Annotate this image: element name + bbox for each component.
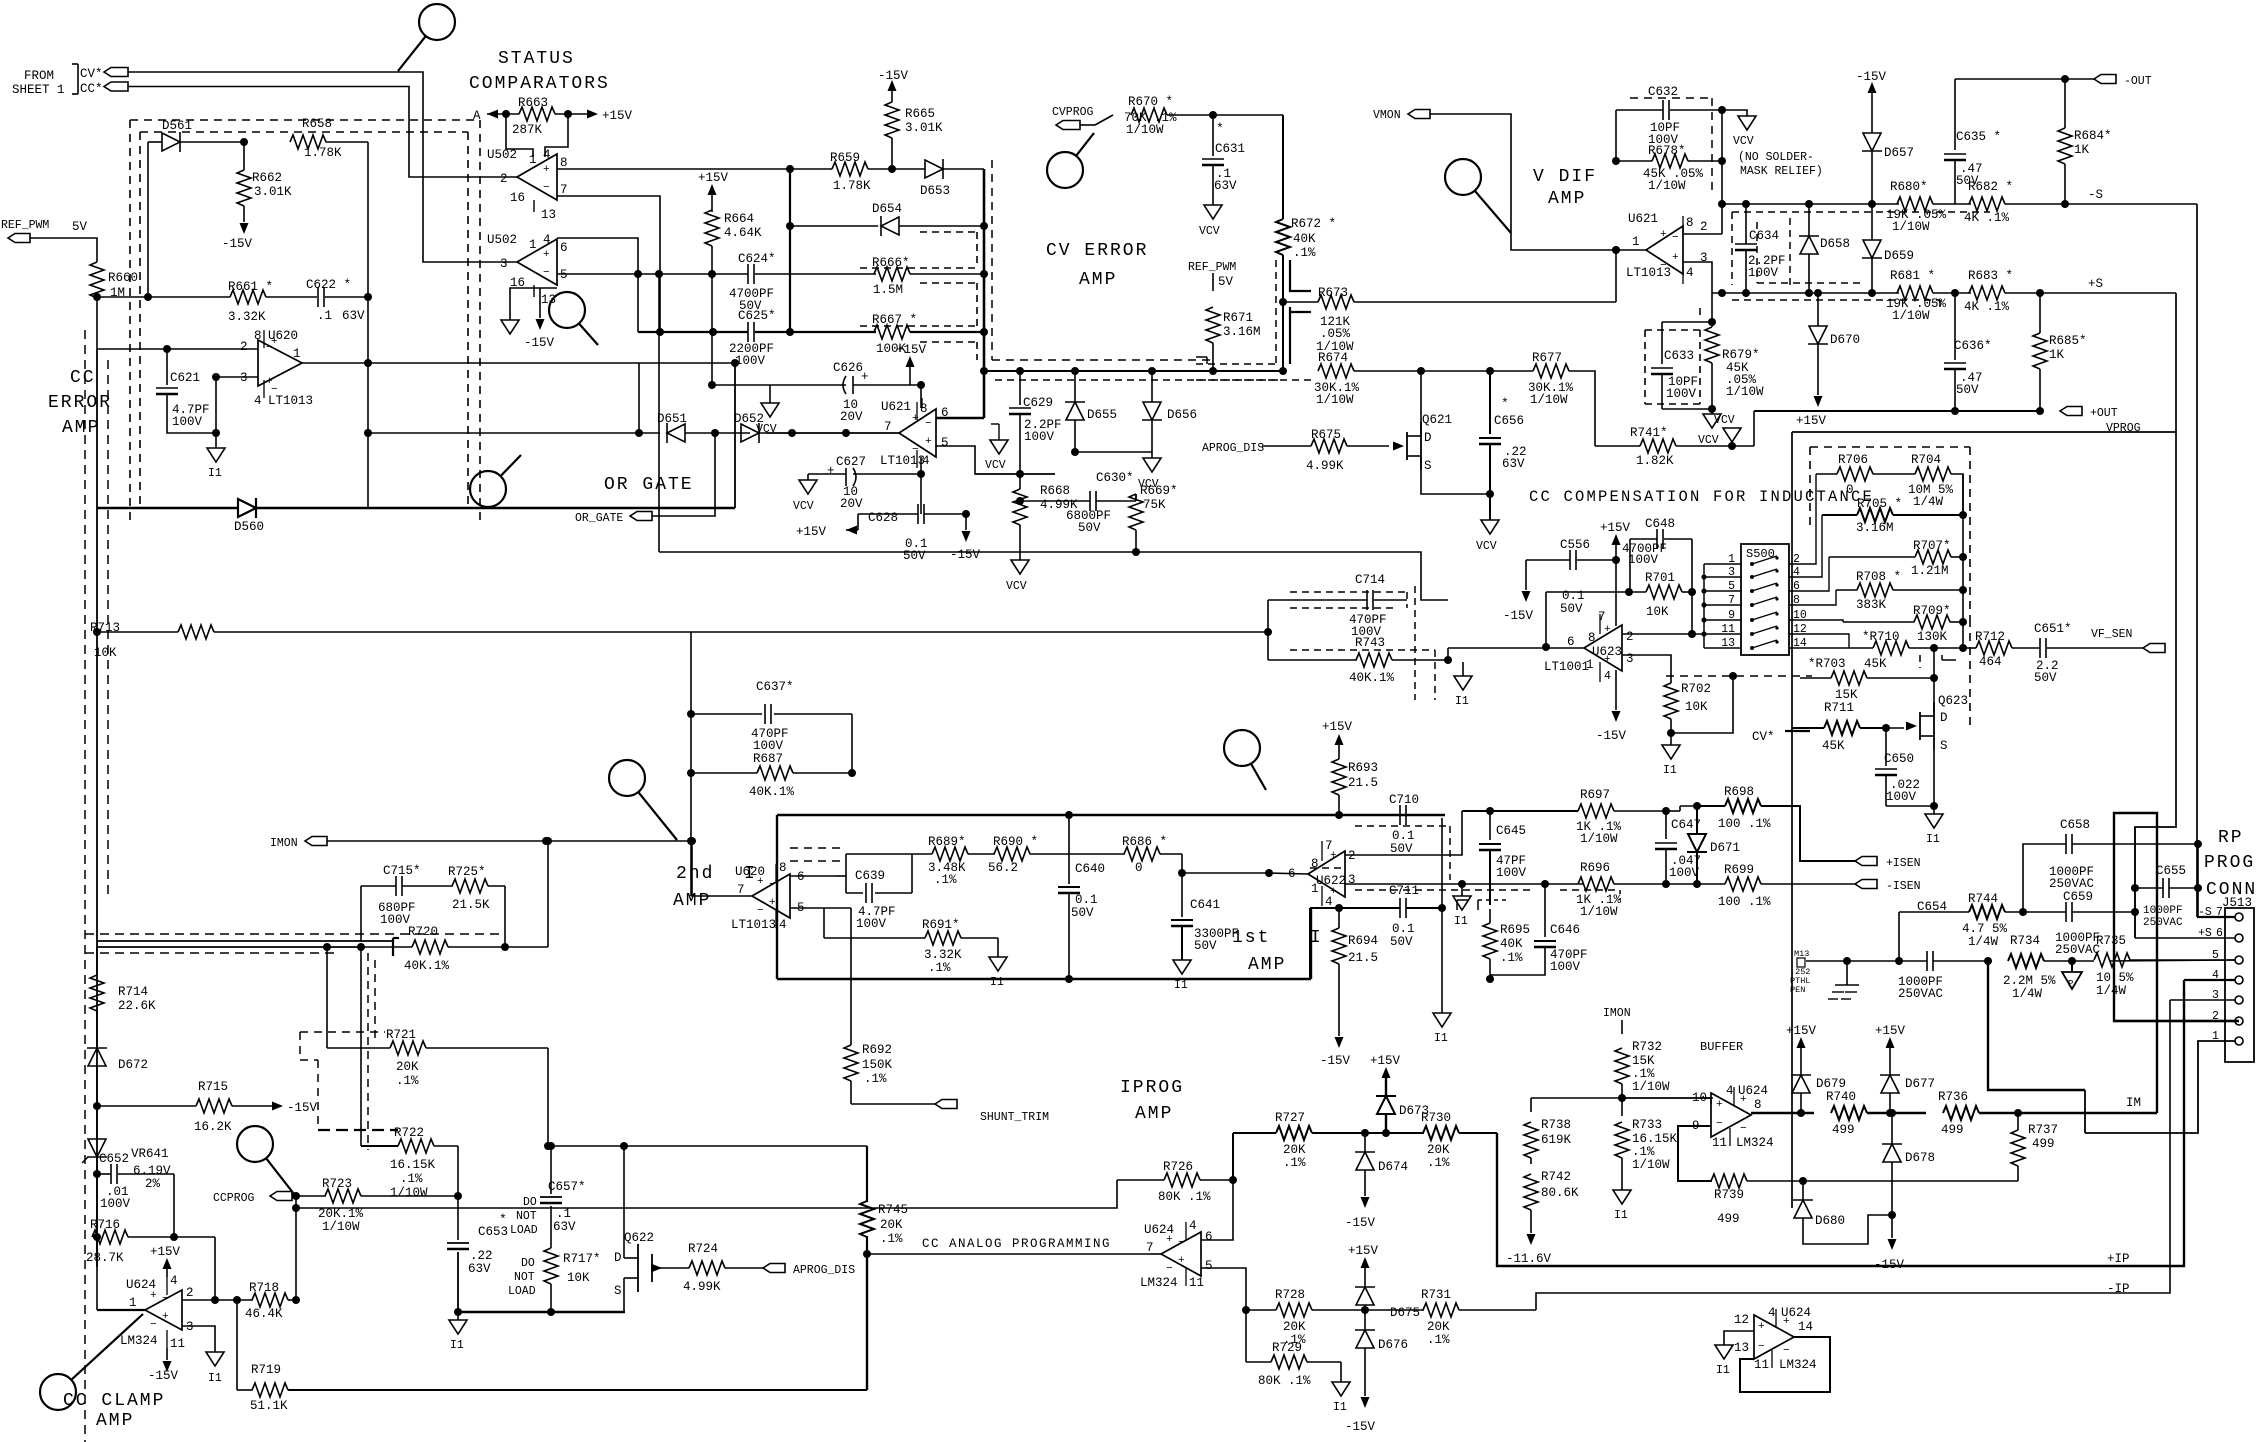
svg-text:C630*: C630*: [1096, 471, 1134, 485]
svg-text:100 .1%: 100 .1%: [1718, 817, 1771, 831]
svg-text:11: 11: [1721, 623, 1735, 636]
wire C648 loop: [1630, 538, 1657, 540]
svg-text:VCV: VCV: [1199, 225, 1220, 238]
svg-text:C658: C658: [2060, 818, 2090, 832]
wire VCV rail y371: [984, 370, 1283, 372]
wire -IP long: [1535, 1309, 1537, 1311]
wire REF_PWM to R660: [30, 238, 97, 262]
ground I1 under Q623: [1933, 806, 1935, 814]
svg-text:.1%: .1%: [1632, 1145, 1655, 1159]
svg-text:R709*: R709*: [1913, 604, 1951, 618]
opamp U624c BUFFER: [1711, 1093, 1751, 1137]
wire x659 down: [658, 274, 660, 552]
balloon callout 3: [470, 471, 506, 507]
svg-text:AMP: AMP: [96, 1411, 134, 1431]
svg-text:LT1013: LT1013: [268, 394, 313, 408]
svg-text:C634: C634: [1749, 229, 1779, 243]
wire U624a pin1 output: [97, 1309, 145, 1311]
svg-text:7: 7: [560, 183, 568, 197]
wire C628 +15V: [857, 514, 859, 530]
power -15V D676: [1361, 1397, 1370, 1408]
svg-text:4: 4: [1768, 1306, 1776, 1320]
svg-text:*: *: [1501, 396, 1509, 411]
svg-text:130K: 130K: [1917, 630, 1948, 644]
svg-text:+: +: [1716, 1099, 1723, 1111]
svg-text:13: 13: [541, 208, 556, 222]
wire VPROG border: [1792, 431, 2176, 433]
svg-text:R694: R694: [1348, 934, 1378, 948]
wire heavy pin1 net: [1988, 961, 2085, 1090]
svg-text:+: +: [1604, 624, 1611, 636]
power -15V arrow: [240, 223, 249, 234]
wire CC ANALOG PROGRAMMING: [867, 1253, 1150, 1255]
svg-text:13: 13: [1734, 1341, 1749, 1355]
svg-text:R720: R720: [408, 925, 438, 939]
power +15V under D670: [1814, 396, 1823, 407]
svg-text:I1: I1: [1434, 1032, 1448, 1045]
svg-text:63V: 63V: [468, 1262, 491, 1276]
svg-text:D: D: [1940, 711, 1948, 725]
wire +15V down to U623: [1615, 560, 1617, 626]
svg-text:SHEET 1: SHEET 1: [12, 83, 65, 97]
svg-text:R685*: R685*: [2049, 334, 2087, 348]
svg-text:IMON: IMON: [1603, 1007, 1631, 1020]
svg-text:1: 1: [1728, 553, 1735, 566]
ground I1 near C710 region: [1462, 662, 1464, 676]
svg-text:1M: 1M: [110, 286, 125, 300]
svg-text:100V: 100V: [1550, 960, 1581, 974]
svg-text:U502: U502: [487, 148, 517, 162]
svg-text:50V: 50V: [1390, 935, 1413, 949]
svg-text:1/4W: 1/4W: [1968, 935, 1999, 949]
ground VCV under R679: [1711, 409, 1713, 414]
svg-text:63V: 63V: [553, 1220, 576, 1234]
svg-text:3.16M: 3.16M: [1223, 325, 1261, 339]
svg-text:150K: 150K: [862, 1058, 893, 1072]
dashed bits near Q623: [1919, 655, 1921, 668]
svg-text:-11.6V: -11.6V: [1506, 1252, 1552, 1266]
svg-text:250VAC: 250VAC: [2049, 877, 2094, 891]
svg-text:28.7K: 28.7K: [86, 1251, 124, 1265]
svg-text:−: −: [1758, 1341, 1765, 1353]
wire C659: [2023, 911, 2066, 913]
svg-text:50V: 50V: [1071, 906, 1094, 920]
svg-text:4K .1%: 4K .1%: [1964, 211, 2010, 225]
connector VMON flag: [1408, 110, 1430, 119]
wire C556: [1526, 559, 1570, 561]
svg-text:0.1: 0.1: [1392, 922, 1415, 936]
wire U502#1 pin8 to R659 line: [557, 168, 832, 170]
switch S500 box: [1741, 544, 1789, 655]
svg-text:−: −: [1178, 1237, 1185, 1249]
svg-text:VCV: VCV: [756, 423, 777, 436]
svg-text:40K.1%: 40K.1%: [404, 959, 450, 973]
svg-text:1.5M: 1.5M: [873, 283, 903, 297]
opamp U620 CC error amp: [258, 340, 302, 386]
svg-text:1/10W: 1/10W: [390, 1186, 428, 1200]
wire R686 to U622 pin6: [1182, 872, 1269, 874]
svg-text:*R710: *R710: [1862, 630, 1900, 644]
dashed rail below y371: [995, 379, 1280, 381]
svg-text:R675: R675: [1311, 428, 1341, 442]
svg-text:LT1013: LT1013: [880, 454, 925, 468]
wire R669 down to long line: [1135, 551, 1137, 553]
wire pin4: [2184, 979, 2235, 981]
svg-text:16.2K: 16.2K: [194, 1120, 232, 1134]
ground I1 U624a pin3: [206, 1352, 224, 1366]
svg-text:+15V: +15V: [1786, 1024, 1817, 1038]
wire pin10 into edge: [1704, 1097, 1711, 1099]
svg-text:FROM: FROM: [24, 69, 54, 83]
svg-text:1/10W: 1/10W: [1648, 179, 1686, 193]
svg-text:-S: -S: [2088, 188, 2103, 202]
svg-text:I1: I1: [1455, 695, 1469, 708]
svg-text:12: 12: [1793, 623, 1807, 636]
opamp U622: [1308, 851, 1345, 897]
wire C629 bottom joins pin5 line: [1016, 470, 1024, 478]
power -15V D674: [1361, 1197, 1370, 1208]
svg-text:1/10W: 1/10W: [1632, 1080, 1670, 1094]
svg-text:4: 4: [1726, 1084, 1734, 1098]
svg-text:287K: 287K: [512, 123, 543, 137]
wire VMON to U621b: [1430, 114, 1646, 250]
svg-text:+15V: +15V: [602, 109, 633, 123]
svg-text:R662: R662: [252, 171, 282, 185]
svg-text:13: 13: [1721, 637, 1735, 650]
svg-text:VCV: VCV: [1733, 135, 1754, 148]
svg-text:+15V: +15V: [1796, 414, 1827, 428]
svg-text:CVPROG: CVPROG: [1052, 106, 1094, 119]
svg-text:C628: C628: [868, 511, 898, 525]
svg-text:20K: 20K: [880, 1218, 903, 1232]
connector CC* flag: [104, 82, 128, 91]
connector CV* flag: [104, 68, 128, 77]
svg-text:AMP: AMP: [1248, 955, 1286, 975]
wire C632 line: [1616, 109, 1663, 111]
svg-text:AMP: AMP: [1548, 189, 1586, 209]
svg-text:CC COMPENSATION FOR INDUCTANCE: CC COMPENSATION FOR INDUCTANCE: [1529, 488, 1874, 506]
svg-text:56.2: 56.2: [988, 861, 1018, 875]
svg-text:4: 4: [543, 148, 551, 162]
svg-text:6.19V: 6.19V: [133, 1164, 171, 1178]
dashed shields 1st amp: [1449, 826, 1451, 880]
svg-text:4: 4: [254, 394, 262, 408]
svg-text:C652: C652: [99, 1152, 129, 1166]
wire CV* R711 line: [1785, 728, 1824, 734]
svg-text:D678: D678: [1905, 1151, 1935, 1165]
svg-text:D: D: [614, 1251, 622, 1265]
svg-text:-15V: -15V: [1503, 609, 1534, 623]
svg-text:CCPROG: CCPROG: [213, 1192, 255, 1205]
wire U624b pin6: [1201, 1180, 1233, 1240]
svg-text:100V: 100V: [753, 739, 784, 753]
wire pin5 extended: [790, 907, 851, 909]
opamp U621a CV error: [899, 409, 936, 457]
svg-text:6: 6: [1205, 1230, 1213, 1244]
svg-text:-15V: -15V: [287, 1101, 318, 1115]
svg-text:10K: 10K: [94, 646, 117, 660]
wire C714 line: [1268, 599, 1367, 601]
svg-text:8: 8: [1588, 631, 1596, 645]
svg-text:-15V: -15V: [524, 336, 555, 350]
wire C656 to VCV: [1489, 494, 1491, 520]
wire heavy bus x984: [983, 169, 986, 418]
svg-text:VCV: VCV: [793, 500, 814, 513]
svg-text:−: −: [162, 1293, 169, 1305]
connector OR_GATE flag: [630, 512, 652, 521]
svg-text:250VAC: 250VAC: [2055, 943, 2100, 957]
svg-text:+15V: +15V: [1348, 1244, 1379, 1258]
wire OR line y433: [368, 432, 660, 434]
connector -ISEN flag: [1855, 880, 1877, 889]
svg-text:100V: 100V: [856, 917, 887, 931]
svg-text:.05%: .05%: [1320, 327, 1351, 341]
opamp U620b: [752, 874, 790, 918]
wire U624d out: [1794, 1336, 1812, 1338]
svg-text:LM324: LM324: [1779, 1358, 1817, 1372]
svg-text:IMON: IMON: [270, 837, 298, 850]
svg-text:VF_SEN: VF_SEN: [2091, 628, 2132, 641]
svg-text:20K: 20K: [1427, 1143, 1450, 1157]
svg-text:R715: R715: [198, 1080, 228, 1094]
power -15V U624a: [166, 1348, 168, 1360]
wire balloon line C714: [1224, 730, 1260, 766]
wire U624a pin2: [182, 1299, 253, 1301]
wire pin6 +S: [2135, 937, 2235, 939]
svg-text:1/10W: 1/10W: [1632, 1158, 1670, 1172]
wire R732 node: [1531, 1097, 1713, 1099]
svg-text:R667 *: R667 *: [872, 313, 917, 327]
svg-text:3: 3: [500, 257, 508, 271]
svg-text:8: 8: [1686, 216, 1694, 230]
svg-text:I1: I1: [1926, 833, 1940, 846]
svg-text:100V: 100V: [1024, 430, 1055, 444]
power -11.6V: [1527, 1234, 1536, 1245]
ground VCV under C626: [761, 403, 779, 417]
svg-text:2%: 2%: [145, 1177, 161, 1191]
svg-text:1/4W: 1/4W: [2096, 984, 2127, 998]
svg-text:CC CLAMP: CC CLAMP: [63, 1391, 165, 1411]
svg-text:Q621: Q621: [1422, 413, 1452, 427]
svg-text:VCV: VCV: [985, 459, 1006, 472]
svg-text:C640: C640: [1075, 862, 1105, 876]
svg-text:8: 8: [560, 156, 568, 170]
svg-text:LM324: LM324: [120, 1334, 158, 1348]
svg-text:R734: R734: [2010, 934, 2040, 948]
svg-text:*R703: *R703: [1808, 657, 1846, 671]
svg-text:1: 1: [1632, 235, 1640, 249]
svg-text:+15V: +15V: [1370, 1054, 1401, 1068]
svg-text:10K: 10K: [1685, 700, 1708, 714]
wire ladder row8: [1810, 590, 1836, 605]
svg-text:+: +: [925, 436, 932, 448]
svg-text:3: 3: [240, 371, 248, 385]
svg-text:11: 11: [1712, 1136, 1727, 1150]
wire C633/R679 top: [1662, 321, 1712, 323]
svg-text:3: 3: [1728, 566, 1735, 579]
svg-text:C627: C627: [836, 455, 866, 469]
svg-text:3: 3: [1348, 873, 1356, 887]
wire REF_PWM down: [1212, 273, 1214, 291]
svg-text:R730: R730: [1421, 1111, 1451, 1125]
svg-text:R664: R664: [724, 212, 754, 226]
svg-text:2: 2: [1793, 553, 1800, 566]
svg-text:14: 14: [1798, 1320, 1813, 1334]
opamp U624a CC CLAMP: [145, 1290, 182, 1330]
wire U624a pin3: [182, 1326, 215, 1352]
wire U623 pin3: [1622, 655, 1671, 667]
svg-text:0.1: 0.1: [1392, 829, 1415, 843]
svg-text:5: 5: [560, 268, 568, 282]
svg-text:R731: R731: [1421, 1288, 1451, 1302]
power -15V R694: [1335, 1037, 1344, 1048]
svg-text:1K: 1K: [2074, 143, 2090, 157]
wire R738 branch: [1530, 1098, 1532, 1112]
rail -S upper y204: [1722, 203, 1899, 205]
wire OR_GATE stub: [652, 433, 715, 516]
svg-text:1st: 1st: [1232, 928, 1270, 948]
svg-text:250VAC: 250VAC: [2143, 917, 2183, 929]
svg-text:.1%: .1%: [1427, 1333, 1450, 1347]
svg-text:OR_GATE: OR_GATE: [575, 512, 623, 525]
svg-text:.1%: .1%: [1427, 1156, 1450, 1170]
svg-text:D560: D560: [234, 520, 264, 534]
wire C710 right: [1406, 814, 1445, 816]
svg-text:80.6K: 80.6K: [1541, 1186, 1579, 1200]
svg-text:8: 8: [254, 329, 262, 343]
svg-text:CV*: CV*: [1752, 730, 1775, 744]
wire R722 right down: [457, 1146, 459, 1196]
wire U621b pin2: [1683, 233, 1722, 235]
svg-text:20K: 20K: [396, 1060, 419, 1074]
svg-text:1: 1: [529, 153, 537, 167]
wire R726 left: [296, 1180, 1117, 1208]
dashed shield V DIF: [1731, 212, 1733, 285]
ground VCV under C631: [1204, 205, 1222, 219]
svg-text:VCV: VCV: [1006, 580, 1027, 593]
wire pin1: [2085, 1041, 2235, 1133]
svg-text:3: 3: [186, 1320, 194, 1334]
svg-text:LM324: LM324: [1140, 1276, 1178, 1290]
wire C626 line: [712, 384, 846, 386]
connector APROG_DIS flag: [763, 1264, 785, 1273]
wire R702 bottom link: [1671, 676, 1733, 733]
wire R731 out: [1536, 1000, 2170, 1310]
svg-text:+15V: +15V: [150, 1245, 181, 1259]
svg-text:5V: 5V: [1218, 275, 1234, 289]
heavy bottom rail Q622: [458, 1311, 625, 1313]
svg-text:10: 10: [1793, 609, 1807, 622]
svg-text:U621: U621: [881, 400, 911, 414]
svg-text:D656: D656: [1167, 408, 1197, 422]
dashed VPROG edge y676: [1666, 675, 1812, 677]
svg-text:C711: C711: [1389, 884, 1419, 898]
wire U622 pin3: [1345, 883, 1583, 885]
left dashed rails: [84, 330, 86, 1442]
balloon callout 2: [549, 292, 585, 328]
J513 pins: [2235, 913, 2243, 921]
wire R741 up to +OUT: [1753, 411, 1755, 446]
svg-text:AMP: AMP: [1135, 1104, 1173, 1124]
wire drain rail y1146: [551, 1145, 867, 1147]
wire S500 left bus: [1703, 564, 1705, 648]
svg-text:+: +: [1604, 654, 1611, 666]
svg-text:R722: R722: [394, 1126, 424, 1140]
svg-text:R661 *: R661 *: [228, 280, 273, 294]
wire U620 output: [302, 362, 368, 364]
svg-text:U502: U502: [487, 233, 517, 247]
svg-text:D674: D674: [1378, 1160, 1408, 1174]
wire R713 long line: [214, 631, 1268, 633]
balloon callout 8: [40, 1374, 76, 1410]
svg-text:4: 4: [543, 233, 551, 247]
svg-text:1: 1: [529, 238, 537, 252]
svg-text:R689*: R689*: [928, 835, 966, 849]
svg-text:+15V: +15V: [1875, 1024, 1906, 1038]
dashed long shield pair: [85, 933, 505, 935]
svg-text:R690 *: R690 *: [993, 835, 1038, 849]
svg-text:S: S: [1940, 739, 1948, 753]
svg-text:IPROG: IPROG: [1120, 1078, 1184, 1098]
wire R710/R703 node down: [1933, 648, 1935, 712]
svg-text:+: +: [150, 1290, 157, 1302]
svg-text:CC: CC: [70, 368, 96, 388]
svg-text:0.1: 0.1: [1562, 589, 1585, 603]
wire Q621 source: [1421, 456, 1490, 494]
svg-text:S: S: [614, 1284, 622, 1298]
svg-text:R684*: R684*: [2074, 129, 2112, 143]
wire pin8: [920, 385, 922, 408]
wire R722 feed: [360, 947, 362, 1146]
wire Q622 source down: [623, 1278, 625, 1312]
svg-text:4.64K: 4.64K: [724, 226, 762, 240]
svg-text:I1: I1: [1663, 764, 1677, 777]
svg-text:4: 4: [922, 454, 930, 468]
svg-text:619K: 619K: [1541, 1133, 1572, 1147]
svg-text:R695: R695: [1500, 923, 1530, 937]
svg-text:+IP: +IP: [2107, 1252, 2130, 1266]
wire CCPROG down to R718: [295, 1196, 297, 1300]
ground I1 under R702: [1670, 733, 1672, 745]
svg-text:REF_PWM: REF_PWM: [1, 219, 49, 232]
svg-text:R717*: R717*: [563, 1252, 601, 1266]
svg-text:R724: R724: [688, 1242, 718, 1256]
wire R673 to U621b pin1: [1615, 250, 1617, 302]
svg-text:C647: C647: [1671, 818, 1701, 832]
svg-text:8: 8: [920, 402, 928, 416]
svg-text:C710: C710: [1389, 793, 1419, 807]
wire R660 down: [96, 298, 98, 349]
wire U620b pin6: [790, 875, 836, 877]
svg-text:I1: I1: [1174, 979, 1188, 992]
earth ground: [1846, 961, 1848, 985]
svg-text:+S: +S: [2088, 277, 2103, 291]
wire R701 left to pin6: [1545, 592, 1547, 647]
wire -OUT top: [1955, 78, 2094, 80]
svg-text:-15V: -15V: [950, 548, 981, 562]
svg-text:-15V: -15V: [1320, 1054, 1351, 1068]
svg-text:-15V: -15V: [878, 69, 909, 83]
wire U620 pin2: [97, 348, 258, 350]
svg-text:21.5K: 21.5K: [452, 898, 490, 912]
svg-text:.1%: .1%: [400, 1172, 423, 1186]
svg-text:40K: 40K: [1500, 937, 1523, 951]
svg-text:C657*: C657*: [548, 1180, 586, 1194]
svg-text:1/10W: 1/10W: [1892, 220, 1930, 234]
svg-text:100V: 100V: [735, 354, 766, 368]
svg-text:−: −: [757, 905, 764, 917]
wire U624d feedback: [1740, 1337, 1830, 1392]
